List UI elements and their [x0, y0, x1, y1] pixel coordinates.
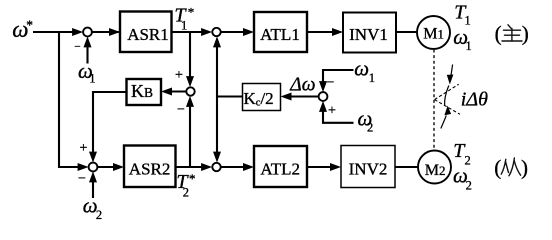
svg-text:INV1: INV1: [349, 25, 388, 44]
svg-text:INV2: INV2: [349, 160, 388, 179]
svg-text:M2: M2: [425, 162, 446, 179]
svg-text:2: 2: [96, 208, 102, 222]
svg-text:1: 1: [465, 14, 471, 28]
svg-text:ATL2: ATL2: [260, 160, 300, 179]
svg-text:−: −: [327, 75, 335, 90]
svg-text:iΔθ: iΔθ: [461, 89, 488, 111]
svg-text:(: (: [495, 22, 502, 46]
svg-text:ASR1: ASR1: [127, 25, 169, 44]
svg-text:−: −: [78, 172, 86, 187]
svg-text:1: 1: [466, 39, 472, 53]
svg-text:+: +: [328, 104, 336, 119]
svg-text:2: 2: [465, 154, 471, 168]
svg-text:Δω: Δω: [289, 75, 315, 96]
svg-text:*: *: [189, 171, 196, 186]
svg-text:−: −: [74, 41, 80, 53]
svg-text:ASR2: ASR2: [129, 160, 171, 179]
svg-text:+: +: [80, 141, 88, 156]
svg-text:M1: M1: [423, 26, 444, 43]
svg-text:(: (: [494, 155, 501, 179]
svg-text:1: 1: [89, 72, 95, 86]
svg-text:*: *: [26, 17, 33, 32]
svg-text:2: 2: [367, 120, 373, 134]
svg-text:*: *: [188, 5, 195, 20]
svg-text:): ): [522, 22, 529, 46]
svg-text:+: +: [175, 68, 183, 83]
svg-text:−: −: [177, 103, 185, 118]
svg-text:ω: ω: [354, 56, 369, 80]
svg-text:): ): [521, 155, 528, 179]
svg-text:1: 1: [181, 19, 187, 33]
svg-text:2: 2: [466, 179, 472, 193]
svg-text:1: 1: [369, 71, 375, 85]
svg-text:2: 2: [183, 185, 189, 199]
svg-text:ATL1: ATL1: [260, 25, 300, 44]
